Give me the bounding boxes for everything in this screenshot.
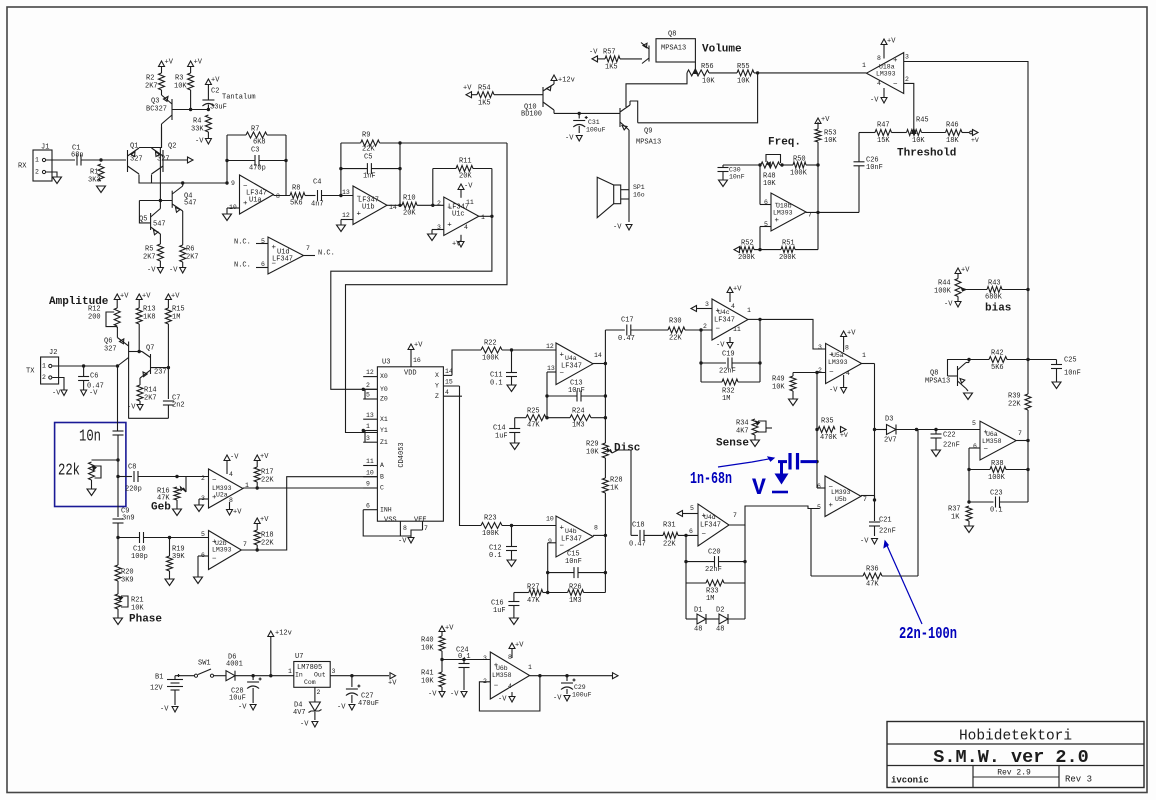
svg-text:2: 2 bbox=[703, 323, 707, 330]
power -V below U3 bbox=[408, 538, 414, 544]
svg-text:R47: R47 bbox=[877, 122, 890, 130]
svg-text:Sense: Sense bbox=[716, 438, 749, 450]
svg-text:47K: 47K bbox=[527, 422, 540, 430]
capacitor C23 feedback bbox=[969, 501, 994, 503]
junction bbox=[578, 112, 581, 115]
svg-text:470K: 470K bbox=[820, 434, 838, 442]
svg-text:9: 9 bbox=[548, 538, 552, 545]
op-amp U4b LF347 bbox=[556, 516, 593, 557]
wire switch to D6 bbox=[214, 675, 227, 677]
svg-text:U4d: U4d bbox=[704, 514, 716, 521]
svg-text:R35: R35 bbox=[821, 418, 834, 426]
wire Q8 collector bbox=[966, 362, 969, 364]
wire R50 node down bbox=[817, 165, 819, 250]
junction bbox=[82, 364, 85, 367]
wire to phase divider bbox=[117, 538, 119, 566]
power +V above U18a bbox=[881, 39, 887, 45]
open arrow input U4d pin5 bbox=[677, 511, 683, 517]
svg-text:10: 10 bbox=[546, 516, 554, 523]
svg-text:-V: -V bbox=[195, 138, 204, 146]
junction bbox=[207, 108, 210, 111]
svg-text:In: In bbox=[295, 672, 303, 679]
svg-text:U5a: U5a bbox=[832, 352, 844, 359]
resistor R38 feedback bbox=[969, 469, 990, 471]
svg-text:22nF: 22nF bbox=[719, 368, 736, 376]
svg-text:6: 6 bbox=[366, 502, 370, 509]
svg-text:R46: R46 bbox=[946, 122, 959, 130]
junction bbox=[758, 318, 761, 321]
svg-text:D1: D1 bbox=[694, 607, 702, 615]
power +V bbox=[205, 79, 211, 85]
svg-text:VEE: VEE bbox=[414, 517, 427, 525]
svg-text:D2: D2 bbox=[716, 607, 724, 615]
svg-text:1M3: 1M3 bbox=[572, 422, 585, 430]
svg-text:R56: R56 bbox=[701, 63, 714, 71]
svg-text:R55: R55 bbox=[737, 63, 750, 71]
svg-text:U1c: U1c bbox=[452, 211, 465, 219]
svg-text:C8: C8 bbox=[128, 464, 136, 472]
svg-text:1M3: 1M3 bbox=[569, 597, 582, 605]
junction bbox=[815, 428, 818, 431]
wire R30 to U4c pin2 bbox=[685, 329, 712, 331]
svg-text:11: 11 bbox=[733, 326, 741, 333]
U3 VSS pin 8 bbox=[399, 521, 401, 536]
svg-text:2: 2 bbox=[437, 200, 441, 207]
wire U1c pin3 ground bbox=[437, 229, 444, 231]
transistor Q2 bbox=[162, 150, 164, 172]
capacitor C29 bbox=[566, 676, 568, 681]
svg-text:-V: -V bbox=[52, 390, 61, 398]
junction bbox=[510, 348, 513, 351]
wire U18b output bbox=[806, 211, 859, 213]
svg-text:10n: 10n bbox=[79, 427, 101, 446]
wire R18 to U2b output bbox=[256, 545, 258, 550]
power -V below R41 bbox=[441, 687, 443, 691]
svg-text:-V: -V bbox=[147, 267, 156, 275]
junction bbox=[116, 536, 119, 539]
resistor R6 bbox=[180, 245, 186, 262]
svg-text:C5: C5 bbox=[364, 154, 372, 162]
svg-text:−: − bbox=[716, 325, 721, 333]
svg-text:+12v: +12v bbox=[275, 630, 292, 638]
wire Q9 collector bbox=[629, 101, 631, 105]
svg-text:U1b: U1b bbox=[362, 204, 375, 212]
wire Q2 base output arrow bbox=[163, 159, 187, 161]
svg-text:1K5: 1K5 bbox=[478, 100, 491, 108]
svg-text:LM393: LM393 bbox=[212, 547, 232, 554]
svg-text:SW1: SW1 bbox=[198, 660, 211, 668]
svg-text:C21: C21 bbox=[879, 517, 892, 525]
U3 right pin 4 Z bbox=[443, 395, 462, 397]
resistor R32 feedback bbox=[700, 363, 702, 382]
wire R23 to U4b bbox=[502, 525, 556, 527]
svg-text:5K6: 5K6 bbox=[991, 364, 1004, 372]
svg-text:4: 4 bbox=[731, 303, 735, 310]
wire U6a output bbox=[1016, 440, 1028, 442]
junction bbox=[699, 361, 702, 364]
svg-text:-V: -V bbox=[464, 183, 473, 191]
open arrow bbox=[188, 157, 194, 163]
resistor R3 bbox=[188, 73, 194, 90]
wire R57 to Q8 bbox=[620, 58, 642, 60]
svg-text:LF347: LF347 bbox=[561, 363, 582, 371]
blue annotation down arrow bbox=[780, 462, 783, 475]
svg-text:LF347: LF347 bbox=[714, 317, 735, 325]
svg-text:10K: 10K bbox=[131, 605, 144, 613]
wire U6a pin6 loop bbox=[969, 447, 980, 449]
svg-text:+V: +V bbox=[142, 293, 151, 301]
junction bbox=[684, 560, 687, 563]
svg-text:C20: C20 bbox=[708, 549, 721, 557]
svg-text:2K7: 2K7 bbox=[143, 254, 156, 262]
capacitor C28 bbox=[252, 676, 254, 680]
svg-text:+: + bbox=[357, 211, 362, 219]
svg-text:R10: R10 bbox=[403, 195, 416, 203]
svg-text:R41: R41 bbox=[421, 670, 434, 678]
potentiometer R34 bbox=[752, 419, 758, 435]
junction bbox=[546, 571, 549, 574]
svg-text:R34: R34 bbox=[736, 420, 749, 428]
resistor R40 bbox=[439, 636, 445, 651]
svg-text:R25: R25 bbox=[527, 408, 540, 416]
svg-text:-V: -V bbox=[613, 224, 622, 232]
svg-text:22K: 22K bbox=[669, 335, 682, 343]
svg-text:LM358: LM358 bbox=[982, 438, 1002, 445]
resistor R27 bbox=[514, 592, 529, 594]
svg-text:C17: C17 bbox=[621, 317, 634, 325]
svg-text:7: 7 bbox=[243, 541, 247, 548]
svg-text:C25: C25 bbox=[1064, 357, 1077, 365]
wire VEE to -V bbox=[411, 530, 423, 538]
svg-text:+V: +V bbox=[452, 241, 461, 249]
wire node to Q7 bbox=[139, 351, 142, 353]
junction bbox=[967, 358, 970, 361]
power -V below U6b bbox=[511, 692, 513, 697]
svg-text:−: − bbox=[829, 369, 834, 377]
svg-text:4: 4 bbox=[445, 389, 449, 396]
op-amp U6b LM358 bbox=[490, 652, 529, 699]
svg-text:+: + bbox=[829, 502, 834, 510]
svg-text:-V: -V bbox=[127, 404, 136, 412]
svg-text:-V: -V bbox=[716, 342, 725, 350]
wire Q7 to R15 line bbox=[151, 367, 169, 369]
wire R36 right vertical bbox=[917, 430, 919, 577]
power -V below U4c bbox=[729, 337, 731, 343]
IC U3 CD4053 bbox=[377, 367, 443, 521]
resistor R28 bbox=[602, 478, 608, 493]
wire Q3 collector down to Q4 base bbox=[159, 148, 161, 201]
svg-text:Z1: Z1 bbox=[380, 439, 388, 446]
wire C17 to R30 bbox=[631, 329, 668, 331]
power +V above R53 bbox=[815, 118, 821, 124]
junction bbox=[256, 486, 259, 489]
svg-text:+V: +V bbox=[171, 293, 180, 301]
power +V bbox=[190, 66, 192, 73]
svg-text:R43: R43 bbox=[988, 280, 1001, 288]
svg-text:100K: 100K bbox=[790, 170, 808, 178]
potentiometer R29 bbox=[602, 443, 608, 458]
wire U2b pin6 ground bbox=[198, 555, 209, 557]
power +V above U6b bbox=[509, 643, 515, 649]
capacitor C15 bbox=[548, 572, 574, 574]
junction bbox=[816, 163, 819, 166]
wire R10 to U1c bbox=[417, 204, 444, 206]
svg-text:+V: +V bbox=[971, 137, 979, 144]
svg-text:SP1: SP1 bbox=[633, 184, 645, 191]
transistor Q6 bbox=[128, 342, 130, 363]
wire U4c out to U5a pin3 bbox=[760, 319, 826, 349]
resistor R8 bbox=[290, 193, 305, 199]
wire bottom rail Q6-C7 bbox=[128, 417, 168, 419]
svg-text:8: 8 bbox=[877, 55, 881, 62]
zener D4 bbox=[314, 687, 316, 702]
resistor R41 bbox=[439, 672, 445, 687]
svg-text:−: − bbox=[984, 446, 989, 454]
arrow output right bbox=[613, 673, 619, 679]
junction bbox=[159, 199, 162, 202]
power -V below speaker bbox=[626, 225, 632, 231]
junction bbox=[1026, 288, 1029, 291]
svg-text:1nF: 1nF bbox=[363, 173, 376, 181]
svg-text:C19: C19 bbox=[722, 351, 735, 359]
svg-text:+V: +V bbox=[388, 680, 397, 688]
junction bbox=[1026, 358, 1029, 361]
potentiometer R45 bbox=[907, 130, 922, 136]
svg-text:R20: R20 bbox=[121, 569, 134, 577]
op-amp U2b LM393 bbox=[209, 531, 242, 570]
svg-text:20K: 20K bbox=[459, 173, 472, 181]
junction bbox=[256, 548, 259, 551]
junction bbox=[431, 204, 434, 207]
wire Q6 bar to R13 node bbox=[129, 351, 140, 353]
svg-text:10K: 10K bbox=[174, 83, 187, 91]
junction bbox=[873, 428, 876, 431]
wire common emitters bbox=[139, 147, 162, 149]
power -V below C31 bbox=[576, 136, 582, 142]
wire U3 X to R22 bbox=[452, 350, 481, 375]
svg-text:10nF: 10nF bbox=[729, 174, 745, 181]
svg-text:Hobidetektori: Hobidetektori bbox=[959, 728, 1072, 744]
wire U18b pin6 loop bbox=[760, 204, 771, 206]
ground bbox=[1052, 382, 1061, 389]
transistor Q9 bbox=[619, 108, 621, 127]
potentiometer R16 bbox=[174, 487, 180, 500]
svg-text:0.47: 0.47 bbox=[629, 541, 646, 549]
title block row lines bbox=[887, 743, 1144, 745]
wire R15 down bbox=[167, 324, 169, 366]
svg-text:R18: R18 bbox=[261, 532, 274, 540]
IC U7 LM7805 bbox=[294, 662, 330, 688]
ground bbox=[932, 450, 941, 457]
wire U18b pin5 loop bbox=[760, 226, 771, 228]
junction bbox=[398, 204, 401, 207]
svg-text:5: 5 bbox=[201, 531, 205, 538]
svg-text:547: 547 bbox=[184, 200, 197, 208]
wire R17 to output rail bbox=[256, 482, 258, 488]
blue annotation rectangle bbox=[55, 423, 126, 507]
power +V bbox=[165, 294, 171, 300]
svg-text:10K: 10K bbox=[763, 180, 776, 188]
svg-text:MPSA13: MPSA13 bbox=[636, 139, 661, 147]
svg-text:7: 7 bbox=[1018, 430, 1022, 437]
wire U1c output bbox=[479, 215, 492, 217]
svg-text:3: 3 bbox=[818, 344, 822, 351]
wire R9 net loop down to U3 Y1 bbox=[346, 143, 508, 433]
svg-text:Com: Com bbox=[304, 679, 316, 686]
junction bbox=[604, 571, 607, 574]
svg-text:U7: U7 bbox=[295, 653, 303, 661]
svg-text:2: 2 bbox=[366, 382, 370, 389]
svg-text:R6: R6 bbox=[186, 246, 194, 254]
svg-text:−: − bbox=[212, 555, 217, 563]
svg-text:-V: -V bbox=[398, 538, 407, 546]
wire U1b output bbox=[387, 204, 402, 206]
svg-text:MPSA13: MPSA13 bbox=[925, 378, 950, 386]
svg-text:48: 48 bbox=[716, 626, 724, 634]
svg-text:R39: R39 bbox=[1008, 393, 1021, 401]
capacitor C16 bbox=[513, 593, 515, 602]
svg-text:5: 5 bbox=[690, 505, 694, 512]
svg-text:100K: 100K bbox=[482, 530, 500, 538]
svg-text:1uF: 1uF bbox=[493, 607, 506, 615]
wire U2a output to U3 pin C bbox=[243, 487, 378, 489]
svg-text:22k: 22k bbox=[58, 461, 80, 480]
svg-text:U4b: U4b bbox=[565, 528, 577, 535]
svg-text:LF347: LF347 bbox=[700, 522, 721, 530]
open arrow input U4c pin3 bbox=[691, 306, 697, 312]
wire 22k branch bbox=[92, 459, 119, 461]
wire down to C9 bbox=[117, 460, 119, 517]
wire U4a output bbox=[593, 363, 605, 365]
svg-text:1: 1 bbox=[481, 214, 485, 221]
wire Q5 collector bbox=[159, 201, 161, 209]
svg-text:U6a: U6a bbox=[986, 431, 998, 438]
svg-text:22K: 22K bbox=[663, 541, 676, 549]
svg-text:R40: R40 bbox=[421, 637, 434, 645]
svg-text:LM393: LM393 bbox=[876, 71, 896, 78]
svg-text:B1: B1 bbox=[155, 674, 163, 682]
svg-text:6: 6 bbox=[817, 483, 821, 490]
svg-text:U4c: U4c bbox=[718, 309, 730, 316]
svg-text:LM393: LM393 bbox=[831, 489, 851, 496]
wire J2 pin1 to Q6 base bbox=[52, 365, 117, 367]
svg-text:22nF: 22nF bbox=[943, 442, 960, 450]
ground bbox=[792, 391, 794, 399]
svg-text:6: 6 bbox=[689, 528, 693, 535]
power -V below C29 bbox=[564, 696, 570, 702]
svg-text:200: 200 bbox=[88, 314, 101, 322]
svg-text:C11: C11 bbox=[490, 372, 503, 380]
capacitor C21 bbox=[869, 521, 880, 523]
svg-text:R31: R31 bbox=[663, 522, 676, 530]
wire C4 to U1b bbox=[322, 195, 354, 197]
wire Q4 emitter to R6 bbox=[182, 211, 184, 245]
wire Q10 emitter rail bbox=[553, 110, 555, 113]
wire U5b pin5 net down bbox=[810, 509, 812, 577]
wire D6 to U7 bbox=[235, 675, 294, 677]
svg-text:C3: C3 bbox=[251, 147, 259, 155]
resistor R42 bbox=[969, 359, 989, 361]
svg-text:10nF: 10nF bbox=[568, 387, 585, 395]
resistor R49 bbox=[792, 373, 794, 377]
diode D6 bbox=[226, 671, 235, 681]
svg-text:-V: -V bbox=[230, 454, 239, 462]
svg-text:R29: R29 bbox=[586, 441, 599, 449]
svg-text:+V: +V bbox=[961, 267, 970, 275]
svg-text:+V: +V bbox=[211, 77, 220, 85]
svg-text:Threshold: Threshold bbox=[897, 148, 956, 160]
op-amp U1b LF347 bbox=[353, 186, 387, 225]
resistor R26 bbox=[548, 592, 568, 594]
svg-text:7: 7 bbox=[733, 512, 737, 519]
svg-text:4: 4 bbox=[508, 683, 512, 690]
power -V above U1c bbox=[458, 184, 464, 190]
svg-text:10K: 10K bbox=[824, 137, 837, 145]
svg-text:22K: 22K bbox=[1008, 401, 1021, 409]
svg-text:R3: R3 bbox=[175, 75, 183, 83]
svg-text:LM393: LM393 bbox=[828, 359, 848, 366]
potentiometer R44 bbox=[955, 279, 961, 297]
svg-text:5: 5 bbox=[366, 392, 370, 399]
svg-text:R51: R51 bbox=[782, 240, 795, 248]
ground bbox=[509, 618, 518, 625]
svg-text:X0: X0 bbox=[380, 373, 388, 380]
svg-text:1uF: 1uF bbox=[495, 433, 508, 441]
op-amp U1c LF347 bbox=[444, 197, 479, 236]
svg-text:N.C.: N.C. bbox=[234, 262, 251, 270]
svg-text:-V: -V bbox=[238, 704, 247, 712]
svg-text:1: 1 bbox=[288, 668, 292, 675]
svg-text:Tantalum: Tantalum bbox=[222, 94, 256, 102]
svg-text:22nF: 22nF bbox=[705, 566, 722, 574]
U3 pin 2 Y0 bbox=[363, 388, 377, 390]
svg-text:U2a: U2a bbox=[216, 492, 228, 499]
arrow +V at R35 bbox=[841, 427, 847, 433]
power +V arrow R54 bbox=[466, 92, 472, 98]
svg-text:327: 327 bbox=[130, 156, 143, 164]
svg-text:1: 1 bbox=[35, 157, 39, 164]
svg-text:12: 12 bbox=[546, 343, 554, 350]
resistor R30 bbox=[668, 327, 685, 333]
svg-text:47K: 47K bbox=[527, 597, 540, 605]
svg-text:100K: 100K bbox=[934, 288, 952, 296]
transistor Q8 (bias) bbox=[957, 366, 959, 386]
capacitor C6 bbox=[83, 366, 85, 376]
svg-text:Q8: Q8 bbox=[668, 31, 676, 39]
junction bbox=[684, 534, 687, 537]
svg-text:4: 4 bbox=[464, 224, 468, 231]
svg-text:200K: 200K bbox=[779, 254, 797, 262]
wire R22 to U4a pin12 bbox=[502, 349, 556, 351]
U3 VEE pin 7 bbox=[422, 521, 424, 530]
resistor R15 bbox=[165, 308, 171, 324]
wire Q4 base loop to Q5 bbox=[139, 200, 172, 202]
wire Q9 emitter to speaker bbox=[628, 130, 630, 222]
resistor R50 bbox=[780, 164, 793, 166]
power +V bbox=[254, 518, 260, 524]
svg-text:4V7: 4V7 bbox=[293, 709, 306, 717]
power -V arrow R57 bbox=[592, 56, 598, 62]
svg-text:-V: -V bbox=[829, 387, 838, 395]
svg-text:R52: R52 bbox=[741, 240, 754, 248]
wire U2a pin3 ground bbox=[199, 498, 209, 500]
svg-text:13: 13 bbox=[547, 365, 555, 372]
svg-text:2: 2 bbox=[905, 76, 909, 83]
op-amp U6a LM358 bbox=[980, 421, 1016, 460]
svg-text:LF347: LF347 bbox=[561, 536, 582, 544]
wire threshold chain bbox=[859, 132, 875, 134]
svg-text:-V: -V bbox=[300, 721, 309, 729]
